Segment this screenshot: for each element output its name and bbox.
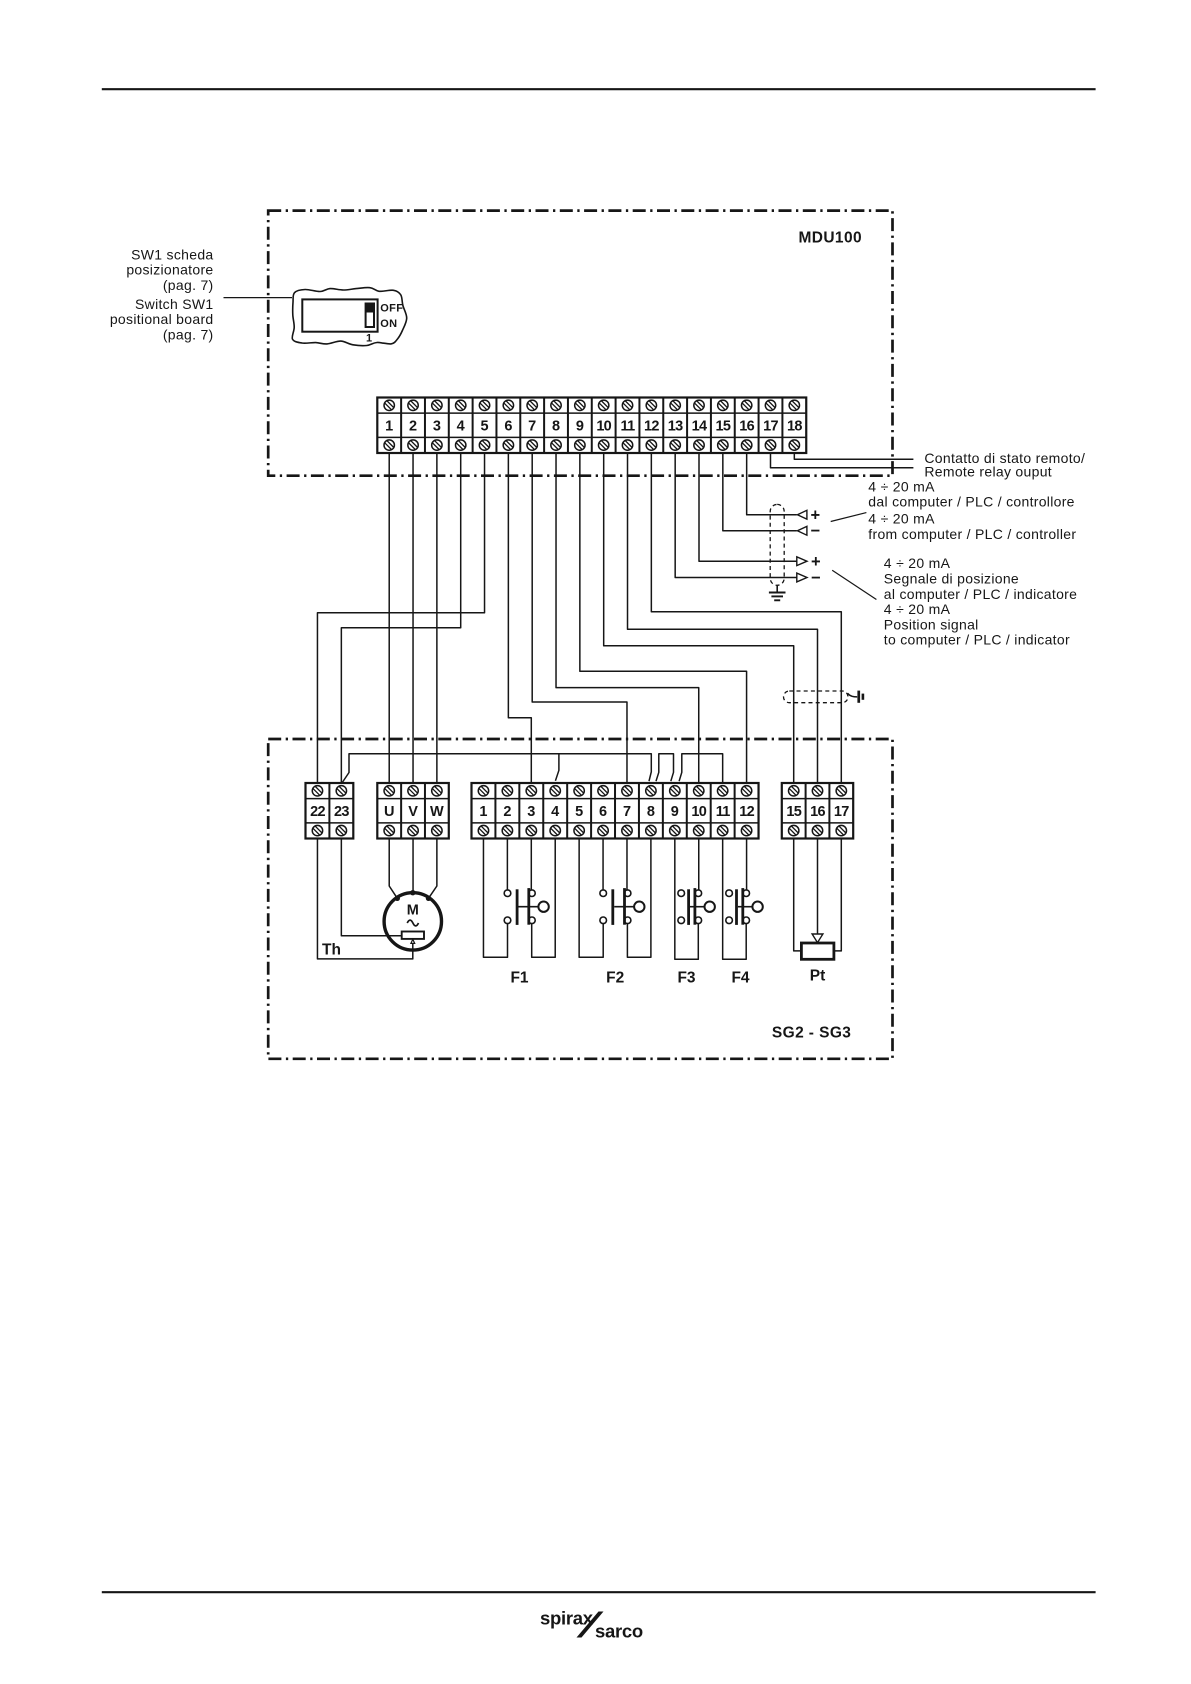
svg-text:4 ÷ 20 mA: 4 ÷ 20 mA <box>884 601 951 617</box>
terminal strip SG thermal terminals 22-23 <box>306 783 354 839</box>
wire terminal 16 to input signal + <box>747 453 797 515</box>
leader line to position signal text <box>832 570 876 599</box>
page top rule <box>102 88 1096 90</box>
potentiometer Pt <box>801 943 834 959</box>
wire W to motor <box>429 839 437 899</box>
svg-text:SG2 - SG3: SG2 - SG3 <box>772 1025 851 1042</box>
label F2 <box>606 970 624 987</box>
wire terminal 6 to SG 3 <box>508 453 531 783</box>
leader line to switch SW1 <box>224 297 293 299</box>
label F3 <box>677 970 695 987</box>
svg-text:Pt: Pt <box>810 968 826 985</box>
svg-text:7: 7 <box>623 804 631 820</box>
wire 22 to thermal element <box>317 839 412 959</box>
cable shield (dashed) around signal wires <box>770 504 784 585</box>
wire terminal 12 to SG 17 <box>651 453 841 783</box>
wire terminal 11 to SG 16 <box>628 453 818 783</box>
svg-text:9: 9 <box>671 804 679 820</box>
svg-text:22: 22 <box>310 804 325 820</box>
svg-text:1: 1 <box>479 804 487 820</box>
svg-text:3: 3 <box>433 419 441 435</box>
wire terminal 3 to W <box>436 453 438 783</box>
wire terminal 18 remote relay <box>794 453 913 459</box>
wire terminal 10 to SG 15 <box>604 453 794 783</box>
svg-text:1: 1 <box>366 332 372 344</box>
annotation: SW1 positional board switch (pag. 7) <box>110 246 214 342</box>
svg-text:Switch SW1: Switch SW1 <box>135 296 213 312</box>
svg-text:al computer / PLC / indicatore: al computer / PLC / indicatore <box>884 586 1077 602</box>
wire terminal 13 to position signal - <box>675 453 797 578</box>
terminal strip SG potentiometer terminals 15-17 <box>782 783 853 839</box>
svg-text:6: 6 <box>599 804 607 820</box>
svg-text:9: 9 <box>576 419 584 435</box>
svg-text:W: W <box>430 804 444 820</box>
wire terminal 15 to input signal - <box>723 453 797 531</box>
svg-text:from computer / PLC / controll: from computer / PLC / controller <box>868 526 1076 542</box>
svg-text:spirax: spirax <box>540 1608 594 1629</box>
svg-text:OFF: OFF <box>380 303 403 315</box>
svg-text:Segnale di posizione: Segnale di posizione <box>884 571 1019 587</box>
svg-text:V: V <box>408 804 418 820</box>
label Pt <box>810 968 826 985</box>
svg-text:3: 3 <box>527 804 535 820</box>
svg-text:ON: ON <box>380 318 397 330</box>
svg-text:−: − <box>811 522 821 540</box>
ground (shield earth) <box>769 585 786 600</box>
wire terminal 8 to SG 10 <box>556 453 699 783</box>
svg-text:15: 15 <box>786 804 801 820</box>
wire terminal 7 to SG 7 <box>532 453 627 783</box>
page bottom rule <box>102 1591 1096 1593</box>
wire SG 9 to F3 <box>675 839 698 960</box>
svg-text:MDU100: MDU100 <box>798 230 862 247</box>
switch F3 <box>678 888 715 925</box>
svg-text:15: 15 <box>715 419 730 435</box>
svg-text:F1: F1 <box>510 970 528 987</box>
svg-text:U: U <box>384 804 394 820</box>
svg-text:−: − <box>811 569 821 587</box>
svg-text:17: 17 <box>834 804 849 820</box>
svg-text:F2: F2 <box>606 970 624 987</box>
svg-text:5: 5 <box>480 419 488 435</box>
svg-text:4 ÷ 20 mA: 4 ÷ 20 mA <box>884 555 951 571</box>
label ON <box>380 318 397 330</box>
spirax sarco logo <box>540 1608 643 1642</box>
svg-text:to computer / PLC / indicator: to computer / PLC / indicator <box>884 632 1070 648</box>
svg-text:10: 10 <box>596 419 611 435</box>
svg-text:6: 6 <box>504 419 512 435</box>
cable shield (dashed) around potentiometer wires <box>784 691 849 703</box>
switch F2 <box>600 888 645 925</box>
label SG2 - SG3 <box>772 1025 851 1042</box>
leader line to input arrows <box>831 513 867 522</box>
wire SG 4 to F1 <box>532 839 556 958</box>
terminal strip X1 (MDU100 terminals 1-18) <box>377 398 806 454</box>
wire terminal 2 to V <box>412 453 414 783</box>
svg-text:M: M <box>407 903 419 919</box>
svg-text:11: 11 <box>716 804 731 820</box>
wire SG 3 to F1 <box>530 839 532 890</box>
svg-text:F4: F4 <box>731 970 749 987</box>
svg-text:(pag. 7): (pag. 7) <box>163 326 214 342</box>
wire terminal 1 to U <box>388 453 390 783</box>
thermal element in motor <box>402 932 424 939</box>
svg-text:2: 2 <box>409 419 417 435</box>
wire terminal 5 to 22 <box>317 453 484 783</box>
switch SW1 board outline (torn-board blob) <box>292 288 406 346</box>
svg-text:F3: F3 <box>677 970 695 987</box>
svg-text:17: 17 <box>763 419 778 435</box>
wire terminal 4 to 23 <box>341 453 460 783</box>
svg-text:posizionatore: posizionatore <box>126 262 213 278</box>
annotation: 4-20 mA input from computer / PLC / controller <box>868 478 1076 541</box>
junction dot W <box>426 896 431 901</box>
svg-text:4 ÷ 20 mA: 4 ÷ 20 mA <box>868 478 935 494</box>
svg-text:(pag. 7): (pag. 7) <box>163 277 214 293</box>
label F1 <box>510 970 528 987</box>
wire SG 7 to F2 <box>626 839 628 890</box>
wire SG 1 to F1 <box>483 839 507 958</box>
motor AC squiggle <box>407 920 418 926</box>
wire SG 5 to F2 <box>579 839 603 958</box>
wire terminal 9 to SG 12 <box>580 453 747 783</box>
wire SG 17 to Pt <box>834 839 841 951</box>
svg-text:11: 11 <box>621 419 636 435</box>
svg-text:2: 2 <box>503 804 511 820</box>
wire SG 16 to Pt wiper <box>817 839 819 935</box>
switch F4 <box>726 888 763 925</box>
svg-text:dal computer / PLC / controllo: dal computer / PLC / controllore <box>868 494 1074 510</box>
label Th <box>322 942 341 959</box>
switch SW1 (DIP switch, OFF position) <box>302 299 377 331</box>
junction dot V <box>410 890 415 895</box>
label M <box>407 903 419 919</box>
wire SG 6 to F2 <box>602 839 604 890</box>
svg-text:16: 16 <box>739 419 754 435</box>
wire SG 8 to F2 <box>627 839 651 958</box>
wire bus terminal 23 to SG 4 and SG 8 <box>342 754 651 783</box>
thermal wiper triangle <box>411 939 415 943</box>
SG2-SG3 enclosure (dash-dot box) <box>268 739 892 1059</box>
svg-text:sarco: sarco <box>595 1621 643 1642</box>
svg-text:12: 12 <box>644 419 659 435</box>
svg-text:7: 7 <box>528 419 536 435</box>
svg-text:8: 8 <box>552 419 560 435</box>
annotation: remote relay output <box>924 450 1085 480</box>
svg-text:Remote relay ouput: Remote relay ouput <box>924 464 1052 480</box>
label MDU100 <box>798 230 862 247</box>
shield chassis connection <box>848 691 865 703</box>
svg-text:18: 18 <box>787 419 802 435</box>
svg-text:positional board: positional board <box>110 311 214 327</box>
svg-text:16: 16 <box>810 804 825 820</box>
wire terminal 14 to position signal + <box>699 453 797 561</box>
wire terminal 17 remote relay <box>770 453 913 468</box>
svg-text:SW1 scheda: SW1 scheda <box>131 246 213 262</box>
wire 23 to thermal element <box>341 839 401 936</box>
position signal + arrow (terminal 14) <box>797 553 821 571</box>
wire SG 15 to Pt <box>794 839 802 951</box>
svg-text:1: 1 <box>385 419 393 435</box>
position signal - arrow (terminal 13) <box>797 569 821 587</box>
terminal strip SG switch terminals 1-12 <box>472 783 759 839</box>
svg-text:4: 4 <box>551 804 559 820</box>
input signal + arrow (terminal 16) <box>797 507 820 525</box>
label OFF <box>380 303 403 315</box>
label 1 (switch position) <box>366 332 372 344</box>
wire V to motor <box>412 839 414 893</box>
svg-text:10: 10 <box>691 804 706 820</box>
wire link SG 9 to SG 11 <box>679 754 723 783</box>
wire SG 10 to F3 <box>698 839 700 890</box>
svg-text:4: 4 <box>457 419 465 435</box>
motor M1 (M~) <box>384 893 441 950</box>
input signal - arrow (terminal 15) <box>797 522 820 540</box>
svg-text:8: 8 <box>647 804 655 820</box>
svg-text:23: 23 <box>334 804 349 820</box>
wire SG 2 to F1 <box>506 839 508 890</box>
svg-text:12: 12 <box>739 804 754 820</box>
annotation: 4-20 mA position signal to computer / PLC / indicator <box>884 555 1077 648</box>
label F4 <box>731 970 749 987</box>
wire SG 11 to F4 <box>723 839 747 960</box>
svg-text:Position signal: Position signal <box>884 616 979 632</box>
svg-text:13: 13 <box>668 419 683 435</box>
svg-text:5: 5 <box>575 804 583 820</box>
wire SG 12 to F4 <box>746 839 748 890</box>
wire U to motor <box>389 839 397 899</box>
svg-text:14: 14 <box>692 419 707 435</box>
junction dot U <box>395 896 400 901</box>
terminal strip SG motor terminals U V W <box>377 783 448 839</box>
wire link SG 8 to SG 9 <box>656 754 674 781</box>
switch F1 <box>504 888 549 925</box>
MDU100 enclosure (dash-dot box) <box>268 211 892 476</box>
Pt wiper arrow <box>812 934 823 943</box>
svg-text:4 ÷ 20 mA: 4 ÷ 20 mA <box>868 511 935 527</box>
svg-text:Th: Th <box>322 942 341 959</box>
